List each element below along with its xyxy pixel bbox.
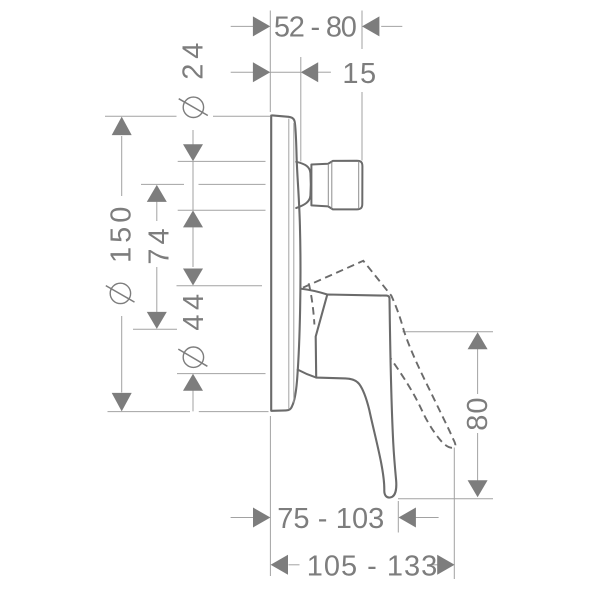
arrow 105-133 right [437,555,454,575]
ext line plate top right part [213,115,270,117]
ext line hub bottom [177,373,266,375]
arrow 52-80 left [253,16,270,36]
arrow O24 up [183,210,203,227]
svg-text:15: 15 [342,58,377,90]
dim line 80 upper [477,348,479,394]
arrow 75-103 right [399,508,416,528]
spout connector [296,161,362,210]
spout step line 2 [331,162,333,209]
spout body [311,161,362,210]
arrow 80 up [468,332,488,349]
ext line plate bottom right [199,411,269,413]
arrow O150 down [112,393,132,412]
svg-text:52 - 80: 52 - 80 [274,11,356,43]
arrow 74 up [147,185,167,202]
ext line plate top left part [105,115,177,117]
arrow 75-103 left [253,508,270,528]
svg-text:24: 24 [177,38,209,80]
dim line O44 [192,390,194,411]
lever body [316,295,397,498]
lever dashed position [303,261,455,448]
ext line plate bottom left [108,411,191,413]
ext line hub top [177,285,263,287]
diameter symbol O24 [179,97,208,117]
spout trumpet [296,162,310,208]
arrowheads [112,16,488,574]
dim line 105-133 right [430,564,440,566]
dim line 80 lower [477,433,479,482]
plate face line 2 [293,123,295,403]
arrow O44 up [183,374,203,391]
dim line 105-133 left [289,564,300,566]
dim line O24 middle [192,161,194,210]
ext line hub axis [133,328,177,330]
escutcheon plate [271,115,300,410]
dim line O150 lower [121,316,123,393]
plate face line 1 [288,119,290,410]
arrow 105-133 left [271,555,288,575]
thin extension / dimension lines [105,11,493,580]
svg-text:74: 74 [143,224,175,264]
arrow O24 down [183,144,203,161]
dim line 74 lower [156,267,158,314]
arrow O150 up [112,117,132,136]
ext line spout axis left [141,183,184,185]
diameter symbol O150 [106,283,135,303]
dim line O150 upper [121,136,123,196]
hub top edge [301,289,328,295]
dim tail 15 right [318,71,331,73]
ext line plate apex [300,57,302,162]
dashed lever outline [303,261,455,448]
arrow 74 down [147,312,167,329]
dim tail 52-80 right [381,25,402,27]
svg-text:105 - 133: 105 - 133 [307,550,439,582]
arrow 80 down [468,480,488,497]
arrow 52-80 right [362,16,379,36]
ext line spout end lower [361,92,363,161]
dashed lever left edge [309,283,315,324]
ext line spout top [178,160,266,162]
ext line 80 bottom [398,498,493,500]
ext line wall top [269,11,271,113]
svg-text:150: 150 [105,203,137,263]
ext line spout axis right [199,183,266,185]
spout end cap line [358,162,360,209]
hub bottom edge [297,369,316,377]
arrow 15 right [301,62,318,82]
dim line 74 upper [156,200,158,221]
dim tail 15 left [231,71,254,73]
ext line 80 top [402,331,493,333]
arrow O44 down [183,269,203,286]
dim line O24 upper [192,130,194,146]
ext line dashed tip [453,448,455,580]
ext line spout bottom [178,209,266,211]
dim tail 52-80 left [231,25,254,27]
ext line spout end upper [361,11,363,50]
spout step line 1 [327,164,329,206]
ext line lever tip [397,501,399,533]
ext line wall bottom [269,416,271,576]
dim tail 75-103 right [416,517,439,519]
svg-text:80: 80 [462,396,494,430]
dim line O24 lower [192,226,194,267]
plate body [271,115,300,410]
svg-text:44: 44 [178,289,210,330]
arrow 15 left [253,62,270,82]
svg-text:75 - 103: 75 - 103 [277,503,384,535]
dim line 15 middle [270,71,301,73]
diameter symbol O44 [178,347,207,367]
dim tail 75-103 left [231,517,254,519]
lever handle [297,289,396,498]
